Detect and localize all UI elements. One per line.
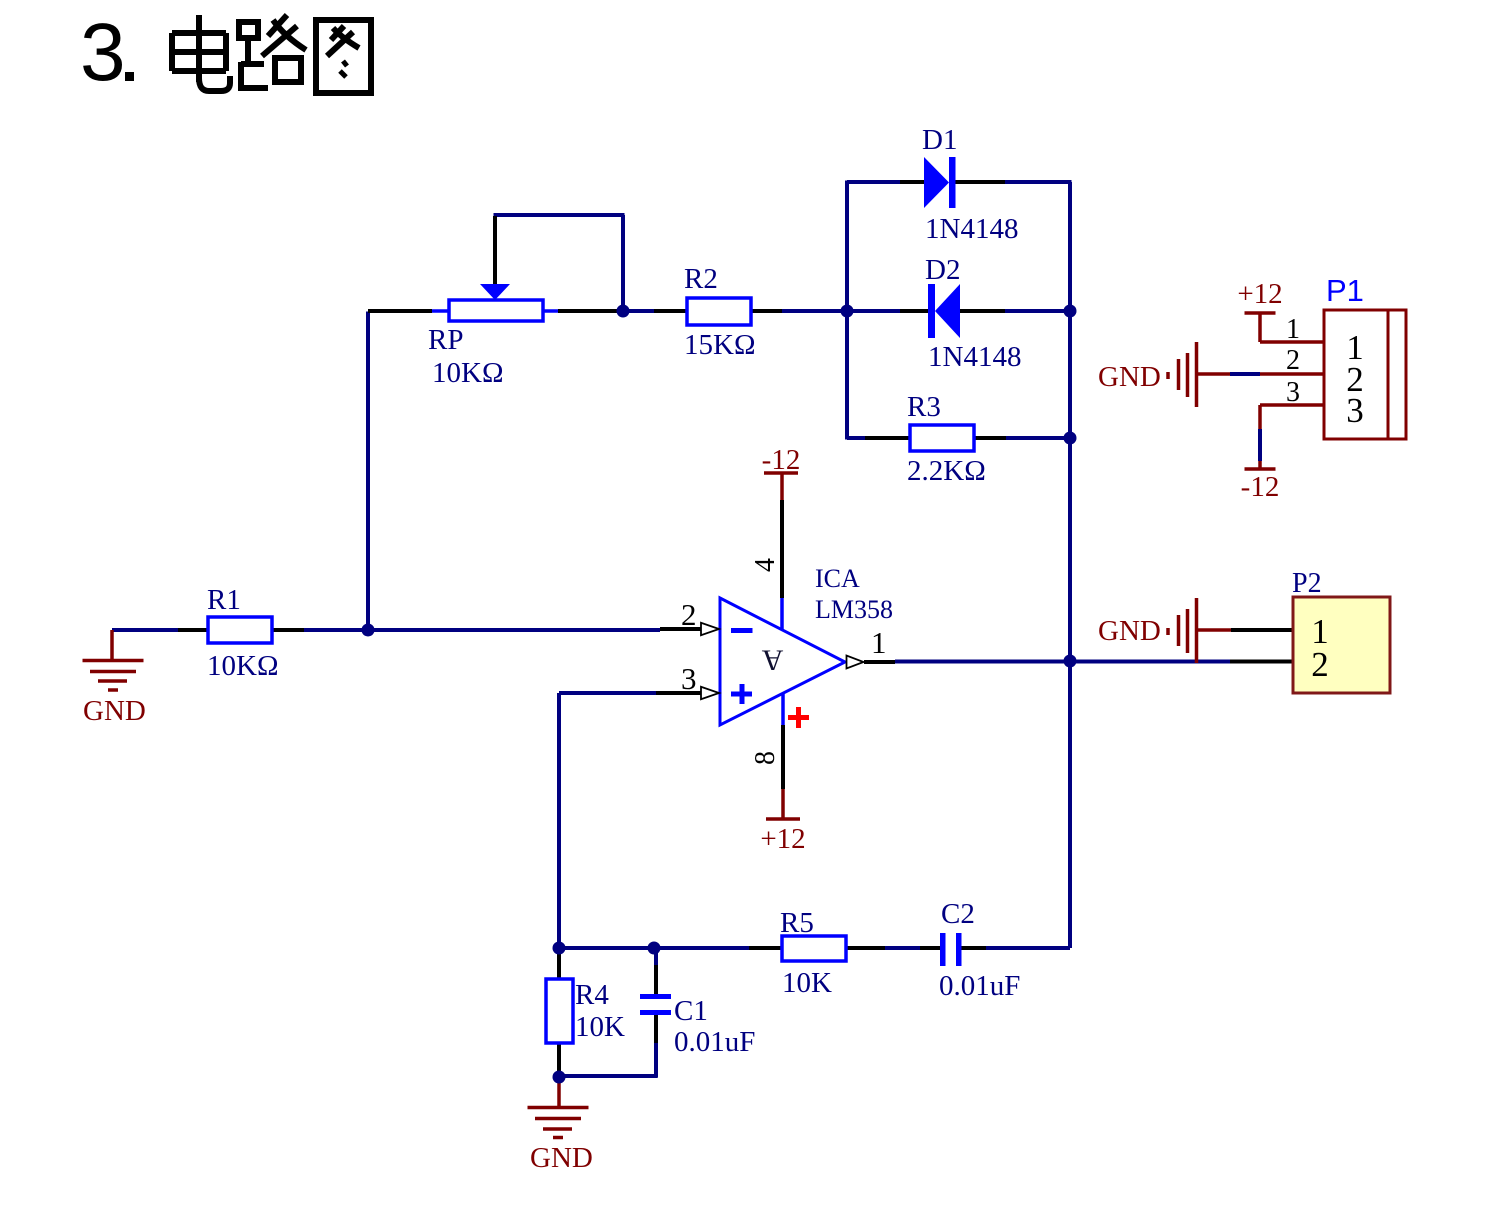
svg-text:10K: 10K	[782, 967, 832, 999]
svg-text:P2: P2	[1292, 568, 1322, 599]
svg-text:4: 4	[750, 558, 781, 572]
svg-text:R2: R2	[684, 263, 718, 295]
svg-text:2: 2	[681, 597, 697, 632]
svg-text:8: 8	[750, 751, 781, 765]
svg-text:1: 1	[1286, 314, 1300, 345]
svg-text:R3: R3	[907, 391, 941, 423]
svg-text:RP: RP	[428, 324, 463, 356]
svg-text:0.01uF: 0.01uF	[939, 970, 1020, 1002]
svg-text:1: 1	[871, 625, 887, 660]
svg-text:3: 3	[80, 7, 126, 98]
svg-text:R1: R1	[207, 584, 241, 616]
svg-text:0.01uF: 0.01uF	[674, 1026, 755, 1058]
svg-text:+12: +12	[760, 823, 805, 855]
svg-text:1N4148: 1N4148	[925, 213, 1018, 245]
svg-text:3: 3	[1286, 377, 1300, 408]
svg-text:3: 3	[1346, 391, 1364, 430]
svg-text:-12: -12	[1241, 471, 1280, 503]
svg-text:GND: GND	[1098, 615, 1161, 647]
svg-text:-12: -12	[762, 444, 801, 476]
svg-text:GND: GND	[1098, 361, 1161, 393]
svg-text:ICA: ICA	[815, 564, 860, 593]
svg-text:R5: R5	[780, 907, 814, 939]
svg-text:C1: C1	[674, 995, 708, 1027]
svg-text:2: 2	[1286, 345, 1300, 376]
svg-text:3: 3	[681, 661, 697, 696]
svg-text:10KΩ: 10KΩ	[432, 357, 504, 389]
svg-text:D1: D1	[922, 124, 957, 156]
svg-text:A: A	[761, 644, 783, 677]
svg-text:D2: D2	[925, 254, 960, 286]
svg-text:15KΩ: 15KΩ	[684, 329, 756, 361]
svg-text:P1: P1	[1326, 273, 1364, 308]
svg-text:10KΩ: 10KΩ	[207, 650, 279, 682]
svg-text:GND: GND	[530, 1142, 593, 1174]
svg-text:2: 2	[1311, 645, 1329, 684]
svg-text:C2: C2	[941, 898, 975, 930]
svg-text:2.2KΩ: 2.2KΩ	[907, 455, 986, 487]
svg-text:LM358: LM358	[815, 595, 893, 624]
svg-text:10K: 10K	[575, 1011, 625, 1043]
svg-text:+12: +12	[1237, 278, 1282, 310]
svg-text:GND: GND	[83, 695, 146, 727]
svg-text:R4: R4	[575, 979, 609, 1011]
svg-text:1N4148: 1N4148	[928, 341, 1021, 373]
